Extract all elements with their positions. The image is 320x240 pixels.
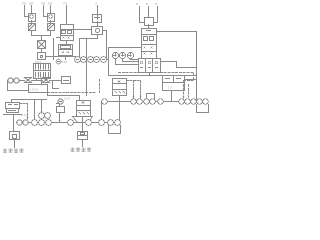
wire to right riser [157, 32, 197, 102]
wire [82, 141, 84, 147]
wire [171, 91, 173, 102]
wire [82, 123, 84, 132]
wire [116, 59, 139, 65]
wire [41, 49, 43, 53]
svg-text:B: B [136, 2, 138, 6]
wire [14, 141, 16, 148]
pump P2 [14, 78, 19, 83]
sensor M2 [119, 52, 125, 58]
damper D1 [29, 24, 36, 31]
mixing box X1 [38, 41, 46, 49]
arrow [133, 97, 142, 99]
drain trap right [197, 105, 209, 113]
starter box VFD [163, 76, 185, 91]
enclosure [109, 48, 142, 76]
signal dashed controller [20, 104, 28, 119]
wire [66, 6, 68, 25]
wire [185, 79, 197, 81]
fan flank sensors [68, 120, 92, 126]
motor box M5 [10, 132, 20, 140]
valve VB2 [43, 78, 50, 83]
svg-text:FR: FR [41, 2, 46, 6]
drain trap left [109, 126, 121, 134]
valve body V2 [92, 27, 103, 35]
wire [41, 79, 43, 85]
wire [140, 7, 158, 23]
duct sensor row [102, 99, 209, 105]
wire [25, 6, 32, 17]
junction box J1 [145, 18, 154, 26]
display box U2 [59, 45, 73, 56]
svg-text:0.0 0.0: 0.0 0.0 [30, 88, 39, 92]
wire sensor bus [46, 57, 109, 60]
wire [31, 21, 33, 24]
svg-text:TS: TS [63, 2, 67, 6]
wire [31, 31, 33, 36]
sensor box SB1 [57, 104, 65, 122]
wire [66, 41, 68, 45]
svg-text:0.00: 0.00 [62, 60, 68, 64]
wire mixing junction [32, 36, 51, 41]
pipe [13, 80, 62, 82]
svg-text:1 2: 1 2 [168, 86, 172, 90]
pump P1 [8, 78, 13, 83]
wire [97, 22, 99, 27]
arrow [27, 118, 29, 120]
wire [50, 31, 52, 36]
sensor T3 [58, 99, 63, 104]
terminal box TB1 [139, 59, 161, 73]
wire [148, 25, 150, 29]
wire [74, 29, 92, 31]
svg-text:B: B [156, 2, 158, 6]
wire [48, 81, 80, 101]
wire [44, 6, 51, 17]
svg-text:DR: DR [29, 2, 34, 6]
duct bridge [147, 94, 155, 102]
svg-text:B: B [146, 2, 148, 6]
svg-text:P: P [96, 1, 98, 5]
fan cone [73, 117, 93, 123]
svg-text:FR: FR [22, 2, 27, 6]
damper D2 [48, 24, 55, 31]
controller DDC [4, 103, 22, 115]
svg-text:DR: DR [48, 2, 53, 6]
sensor M3 [127, 52, 133, 58]
sensors cluster [32, 113, 52, 126]
label supply unit left (Chinese simulated) [3, 149, 24, 154]
signal dashed DDC [48, 80, 100, 93]
bottom pipe [17, 122, 119, 124]
wire [50, 21, 52, 24]
supply fan F2 [113, 79, 127, 96]
control column U1 [61, 25, 74, 41]
heating coil HC1 [34, 64, 51, 79]
control column U3 [142, 29, 157, 59]
signal dashed main [119, 73, 194, 97]
sensor box T1 [38, 53, 46, 60]
supply fan F1 [77, 101, 91, 117]
wire [80, 35, 98, 60]
wire [13, 115, 15, 132]
sensors bottom-left pair [17, 120, 28, 125]
label supply unit right (Chinese simulated) [71, 148, 92, 153]
sensor T2 [56, 59, 61, 64]
wire [103, 31, 107, 60]
component box W1 [62, 77, 71, 84]
valve actuator V1 [93, 15, 102, 23]
arrow [59, 121, 61, 123]
wire [101, 102, 103, 120]
signal dashed F2 [127, 81, 141, 97]
wire [119, 96, 121, 120]
valve VB1 [25, 78, 32, 83]
sensor M1 [112, 52, 118, 58]
pipe return [8, 81, 29, 91]
svg-text:0.0.0: 0.0.0 [64, 97, 71, 101]
arrow [183, 96, 190, 99]
bottom-right sensors [99, 120, 121, 126]
wire [97, 6, 99, 15]
svg-text:00.0.0: 00.0.0 [20, 113, 28, 117]
data box DB1 [29, 85, 48, 93]
sensor circle row S1 [75, 57, 107, 63]
arrow [41, 112, 43, 114]
damper actuator D1 [29, 14, 36, 22]
damper actuator D2 [48, 14, 55, 22]
wire long drop [86, 40, 88, 96]
coil feed wires [37, 79, 46, 81]
wire [54, 38, 66, 60]
supply duct pipe [102, 101, 207, 103]
supply bus [109, 75, 197, 77]
motor box M4 [78, 132, 88, 140]
wire header [12, 100, 47, 120]
wire right link [161, 62, 197, 68]
wire [149, 73, 151, 76]
